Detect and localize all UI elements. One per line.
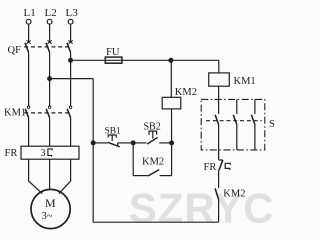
wire SB2 to node	[159, 142, 171, 144]
contact S pole 1	[215, 115, 219, 125]
breaker QF pole 2	[46, 40, 52, 52]
wire L1 to QF	[28, 25, 30, 43]
switch group S box (dash-dot)	[201, 99, 265, 149]
wire KM2 coil to node	[171, 109, 173, 143]
wire FU to KM1 coil corner	[122, 59, 219, 61]
svg-text:S: S	[269, 119, 275, 130]
contactor KM1 pole 3	[67, 106, 72, 118]
wire L3 to QF	[70, 25, 72, 43]
contact KM2 (NO)	[215, 188, 219, 199]
coil KM1	[209, 73, 230, 86]
svg-text:3~: 3~	[42, 211, 53, 222]
svg-text:SZRYC: SZRYC	[129, 185, 275, 232]
wire node to SB2	[133, 142, 146, 144]
KM1 linkage (dashed)	[24, 112, 71, 114]
svg-text:QF: QF	[8, 45, 22, 56]
svg-text:KM2: KM2	[142, 156, 164, 167]
svg-text:L1: L1	[24, 7, 36, 19]
breaker QF pole 1	[25, 40, 31, 52]
wire corner down to KM1 coil	[218, 60, 220, 73]
contact S pole 3	[251, 99, 255, 149]
wire QF to KM1 pole1	[28, 52, 30, 106]
wire FR to motor pole1	[29, 159, 43, 194]
wire KM1 to FR pole1	[28, 118, 30, 147]
svg-text:FR: FR	[204, 162, 217, 173]
wire FR to motor pole2	[49, 159, 51, 189]
QF linkage (dashed)	[24, 46, 71, 48]
wire SB1 to node	[118, 142, 134, 144]
wire KM1 coil to S box	[218, 86, 220, 114]
FR heater symbol	[48, 149, 52, 157]
node SB2 left junction	[131, 141, 135, 145]
wire branch down (self-hold)	[132, 143, 134, 176]
svg-text:L2: L2	[45, 7, 57, 19]
wire branch bottom right	[160, 175, 172, 177]
wire branch bottom left	[133, 175, 148, 177]
wire control left vertical	[92, 79, 94, 223]
svg-text:KM2: KM2	[175, 87, 197, 98]
wire tap L2 right	[50, 78, 94, 80]
contact FR (NC thermal)	[219, 160, 231, 171]
svg-text:M: M	[45, 196, 56, 210]
wire QF to KM1 pole2	[49, 52, 51, 106]
motor M	[31, 189, 70, 228]
wire KM1 to FR pole3	[70, 118, 72, 147]
node tap L2 to control	[48, 77, 52, 81]
node junction KM2 coil branch	[169, 58, 173, 62]
breaker QF pole 3	[67, 40, 73, 52]
svg-text:SB1: SB1	[105, 127, 122, 137]
wire QF to KM1 pole3	[70, 52, 72, 106]
wire KM2 contact down	[218, 199, 220, 222]
node SB1 left junction	[91, 141, 95, 145]
pushbutton SB1 (NC)	[108, 135, 120, 147]
svg-text:KM1: KM1	[4, 108, 26, 119]
coil KM2	[162, 97, 181, 109]
contact KM2 aux (NO, horizontal)	[148, 170, 159, 176]
contactor KM1 pole 1	[25, 106, 30, 118]
svg-text:KM1: KM1	[234, 76, 256, 87]
svg-text:KM2: KM2	[223, 188, 245, 199]
wire S pole1 bottom (to FR)	[218, 125, 220, 160]
fuse FU	[105, 57, 122, 63]
S linkage (dashed)	[206, 120, 262, 122]
svg-text:FU: FU	[106, 47, 120, 58]
wire branch up	[171, 143, 173, 176]
wire FR to KM2 contact	[218, 170, 220, 187]
wire bottom return	[93, 221, 218, 223]
wire KM1 to FR pole2	[49, 118, 51, 147]
contact S pole 2	[233, 99, 237, 149]
svg-text:L3: L3	[66, 7, 79, 19]
thermal relay FR box	[21, 146, 79, 159]
wire FR to motor pole3	[59, 159, 71, 194]
svg-text:3: 3	[41, 148, 46, 159]
svg-text:SB2: SB2	[144, 121, 161, 132]
pushbutton SB2 (NO)	[147, 131, 158, 144]
node L3 terminal	[68, 19, 73, 24]
node KM2 coil bottom junction	[170, 141, 174, 145]
wire tap to FU	[71, 59, 106, 61]
wire KM2 coil branch down	[170, 60, 172, 97]
wire L2 to QF	[49, 25, 51, 43]
node L1 terminal	[26, 19, 31, 24]
wire to SB1	[93, 142, 108, 144]
contactor KM1 pole 2	[46, 106, 51, 118]
node tap L3 to FU	[69, 58, 73, 62]
svg-text:FR: FR	[5, 148, 18, 159]
node L2 terminal	[47, 19, 52, 24]
